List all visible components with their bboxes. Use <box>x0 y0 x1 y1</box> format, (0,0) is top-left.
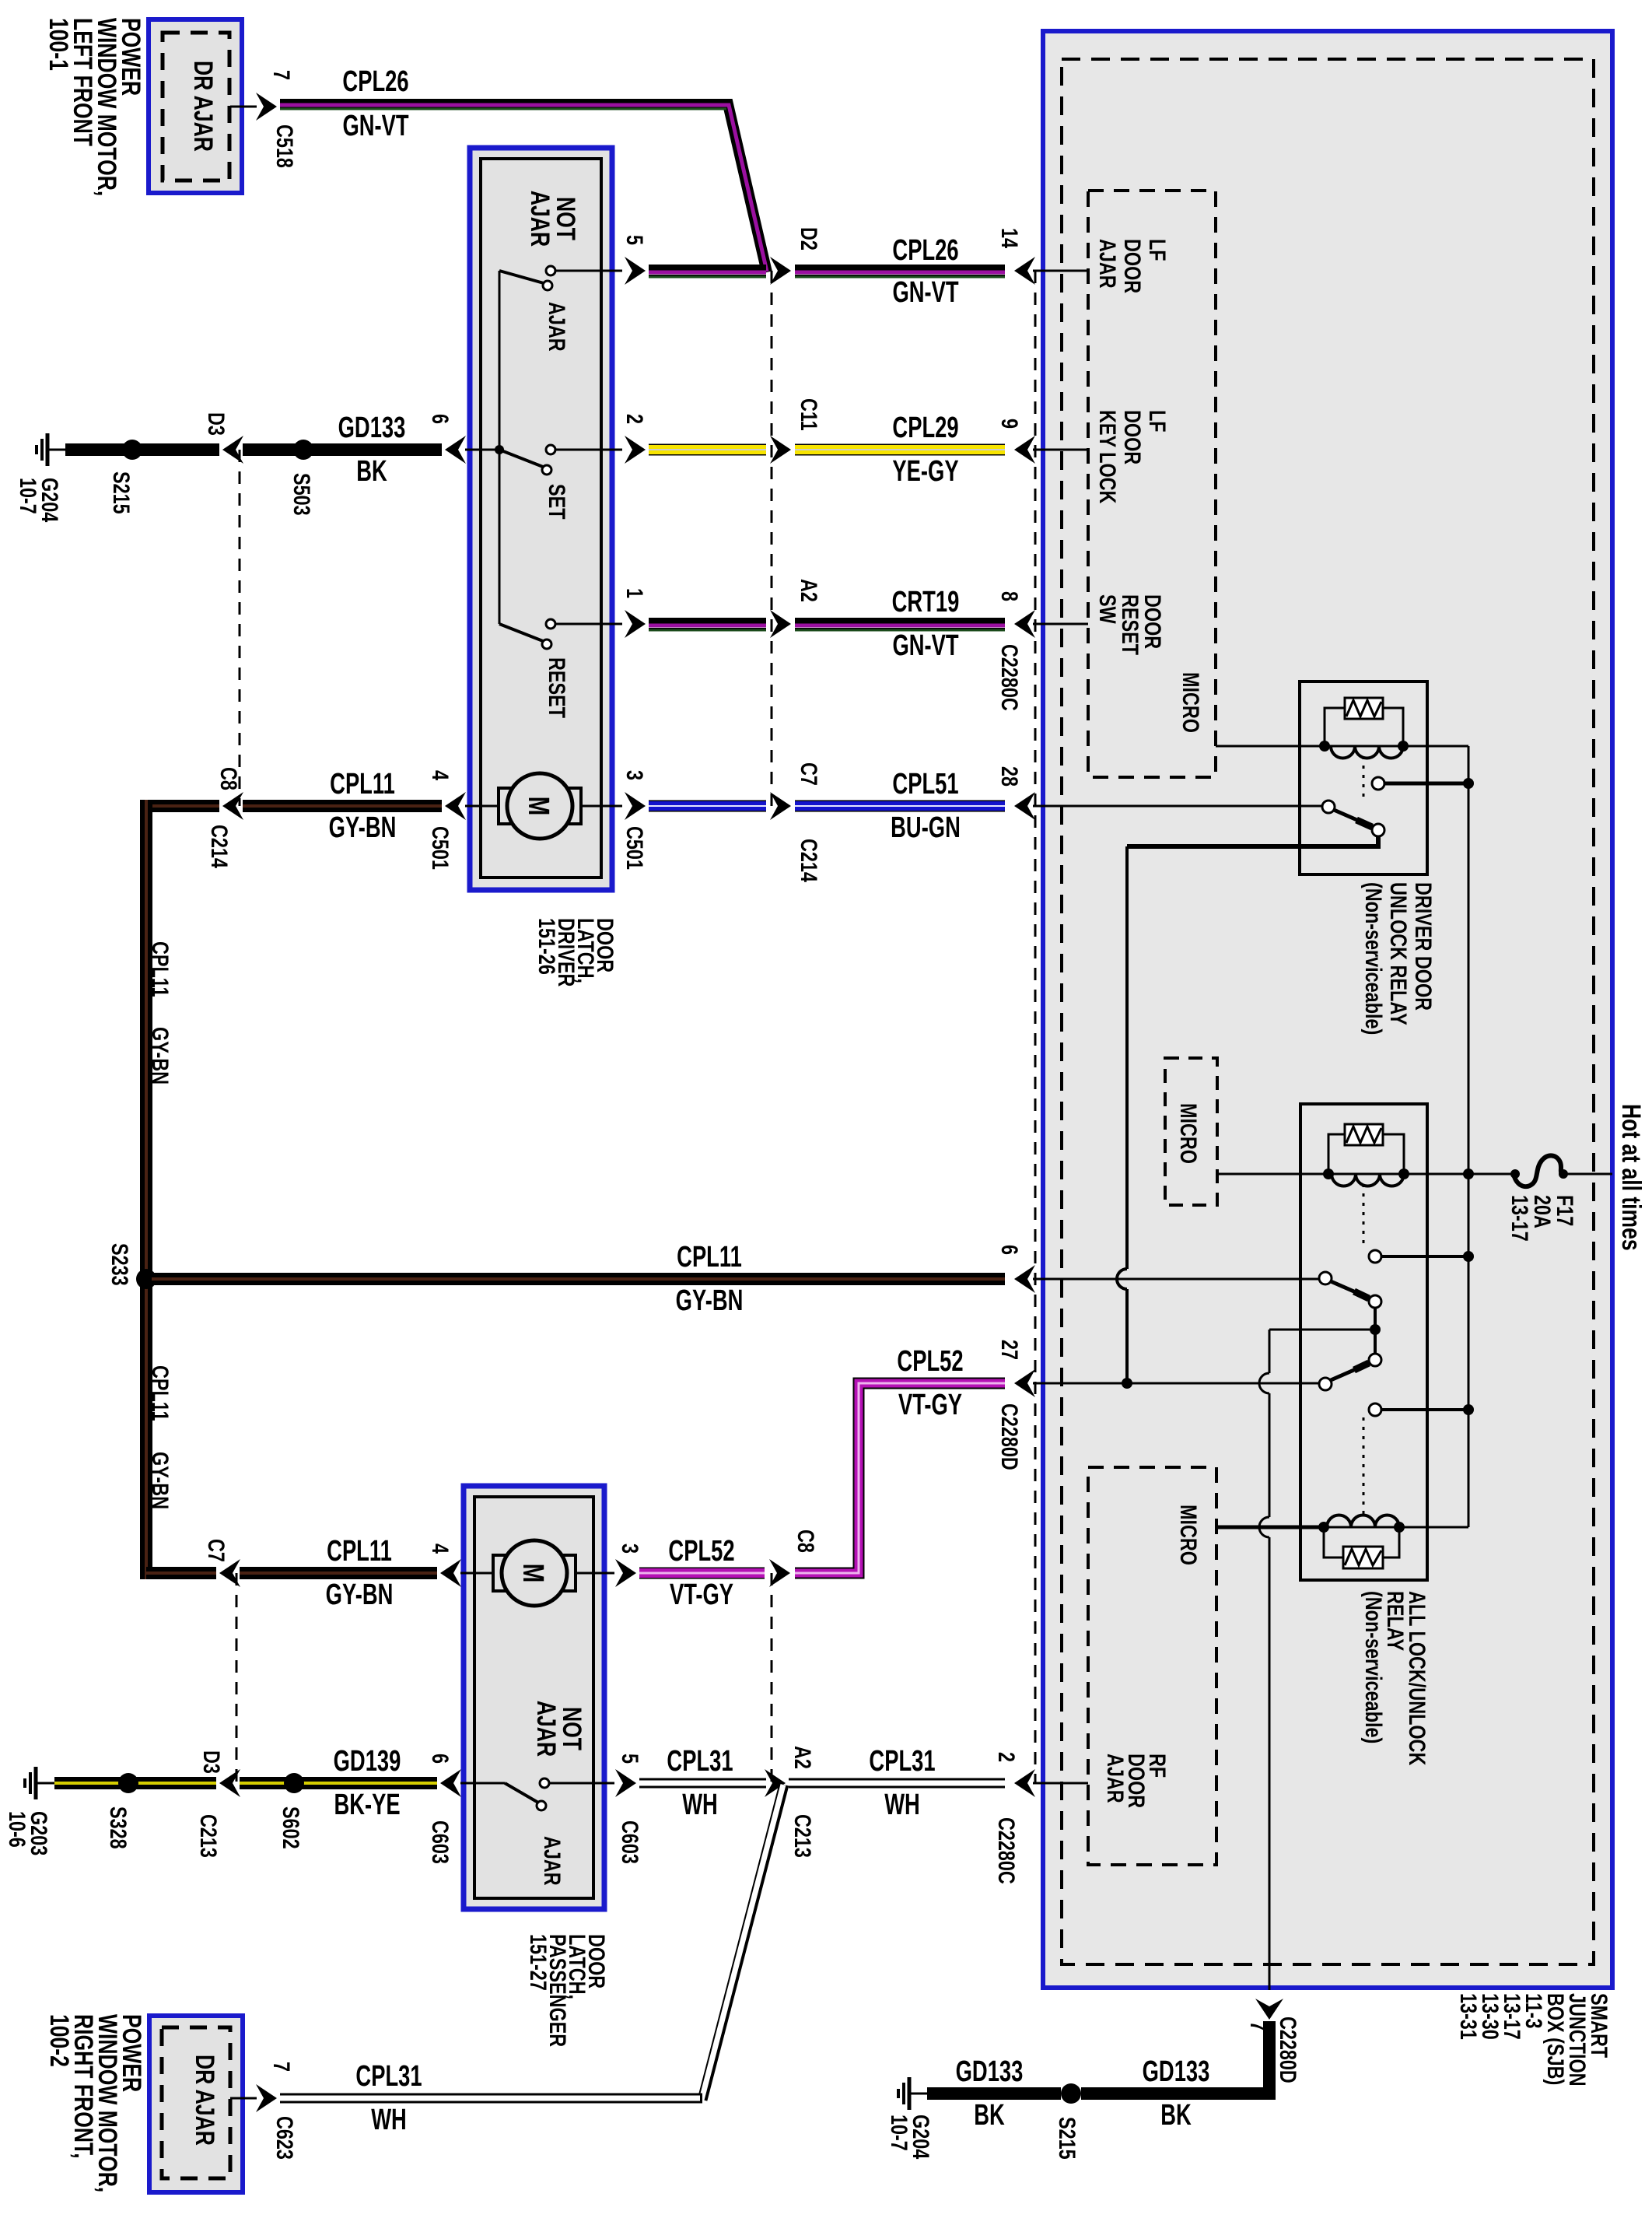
svg-text:BK-YE: BK-YE <box>334 1789 400 1821</box>
svg-text:M: M <box>522 797 555 816</box>
svg-text:7: 7 <box>268 2062 294 2072</box>
svg-text:NOTAJAR: NOTAJAR <box>525 191 580 247</box>
svg-text:M: M <box>516 1564 549 1583</box>
pin 6 arrow driver latch <box>445 436 466 464</box>
pin 5 arrow passenger <box>615 1769 636 1797</box>
switch AJAR (driver latch) <box>499 266 622 290</box>
relay2 top coil feed from MICRO <box>1217 1173 1328 1176</box>
svg-text:CRT19: CRT19 <box>892 586 960 618</box>
pin 7 C623 stub <box>230 2084 277 2112</box>
relay2 lower fixed contact <box>1369 1403 1468 1416</box>
svg-text:GY-BN: GY-BN <box>147 1027 173 1084</box>
pin 27 arrow SJB <box>1014 1369 1319 1397</box>
connector dashed line C2280 outside SJB <box>1034 271 1037 1783</box>
svg-text:3: 3 <box>617 1543 642 1554</box>
splice S503 <box>293 440 313 460</box>
wire CPL11 S233 to pin 6 <box>146 1273 1005 1285</box>
door latch passenger box <box>464 1486 604 1909</box>
micro box middle <box>1165 1058 1217 1205</box>
switch SET (driver latch) <box>465 445 622 475</box>
splice S233 <box>136 1269 156 1289</box>
svg-text:C213: C213 <box>789 1814 815 1858</box>
wire CRT19 A2 to pin 8 <box>795 621 1005 630</box>
relay2 armature bar <box>1374 1308 1377 1354</box>
svg-text:CPL11: CPL11 <box>330 768 395 801</box>
svg-text:CPL52: CPL52 <box>897 1345 963 1378</box>
wire CPL11 trunk vertical <box>140 800 152 1579</box>
svg-text:C7: C7 <box>203 1539 229 1562</box>
in-line connector A2 C213 <box>765 1769 786 1797</box>
relay1 actuation dotted <box>1363 756 1365 801</box>
svg-text:AJAR: AJAR <box>544 302 569 352</box>
wire CPL29 row latch to C11 <box>625 436 766 464</box>
wire CPL51 C7 to pin 28 <box>795 801 1005 812</box>
junction dot driver relay output to CPL52 <box>1122 1378 1132 1389</box>
svg-text:2: 2 <box>621 414 647 424</box>
wire CPL11 passenger corner <box>146 1567 216 1579</box>
relay2 upper blade <box>1331 1281 1369 1298</box>
relay2 top coil to bus <box>1404 1173 1468 1176</box>
relay1 armature blade <box>1334 810 1372 827</box>
pin 9 arrow SJB <box>1014 436 1088 464</box>
svg-text:5: 5 <box>621 235 647 245</box>
svg-text:YE-GY: YE-GY <box>892 455 958 488</box>
svg-text:C214: C214 <box>206 825 232 868</box>
wire CPL31 bottom horizontal <box>280 2094 702 2104</box>
svg-text:CPL31: CPL31 <box>869 1745 935 1778</box>
relay1 coil feed from MICRO <box>1216 745 1325 748</box>
wire CRT19 row latch to A2 <box>625 610 766 638</box>
svg-text:CPL11: CPL11 <box>147 1365 173 1421</box>
svg-text:S328: S328 <box>105 1806 131 1849</box>
relay1 lower contact <box>1372 824 1384 836</box>
svg-text:6: 6 <box>427 414 453 424</box>
svg-text:S233: S233 <box>107 1243 132 1286</box>
svg-text:GD133: GD133 <box>338 412 406 444</box>
relay1 common contact <box>1322 801 1335 813</box>
svg-text:6: 6 <box>427 1754 453 1764</box>
svg-text:9: 9 <box>996 419 1022 429</box>
relay2 resistor bottom <box>1343 1547 1383 1568</box>
svg-text:MICRO: MICRO <box>1175 1505 1201 1565</box>
svg-text:BK: BK <box>356 455 387 488</box>
svg-text:7: 7 <box>1245 2021 1271 2031</box>
svg-text:CPL31: CPL31 <box>667 1745 733 1778</box>
wire CPL11 trunk corner top <box>146 800 219 812</box>
wire CPL26 D2 to pin 14 <box>795 268 1005 277</box>
svg-text:C214: C214 <box>796 839 821 882</box>
pin 3 arrow passenger <box>615 1559 636 1587</box>
svg-text:GY-BN: GY-BN <box>329 811 397 844</box>
svg-text:4: 4 <box>427 770 453 780</box>
svg-text:C603: C603 <box>617 1820 642 1864</box>
svg-text:S602: S602 <box>278 1806 303 1849</box>
svg-text:C603: C603 <box>427 1820 453 1864</box>
relay1 upper fixed contact <box>1372 777 1468 790</box>
relay2 lower moving tip <box>1369 1354 1381 1366</box>
relay2 resistor top <box>1345 1124 1383 1145</box>
wire GD133 BK segment 2 <box>243 443 442 456</box>
wire CPL31 passenger to A2 <box>639 1778 766 1789</box>
svg-text:CPL52: CPL52 <box>668 1535 734 1568</box>
switch AJAR passenger <box>460 1778 614 1810</box>
wire CPL29 C11 to pin 9 <box>795 444 1005 456</box>
wire CPL26 from C518 <box>280 104 767 272</box>
pin 6 arrow SJB <box>1014 1265 1319 1293</box>
svg-text:GY-BN: GY-BN <box>147 1452 173 1509</box>
wire CPL31 diagonal <box>702 1785 784 2100</box>
svg-text:A2: A2 <box>789 1746 815 1769</box>
wire CPL26 row segment latch to D2 <box>555 257 766 285</box>
motor M passenger latch <box>460 1540 614 1606</box>
svg-text:RESET: RESET <box>544 657 569 718</box>
svg-text:C11: C11 <box>796 398 821 431</box>
arrow C7 mid <box>770 792 791 820</box>
svg-text:WH: WH <box>884 1789 920 1821</box>
in-line connector C7 left <box>219 1559 240 1783</box>
fuse end dots <box>1510 1169 1568 1179</box>
svg-text:4: 4 <box>427 1543 453 1554</box>
wire CPL11 passenger segment 2 <box>240 1559 461 1587</box>
pin 8 arrow SJB <box>1014 610 1088 638</box>
svg-text:C213: C213 <box>195 1814 221 1858</box>
wire CPL51 row latch to C7 <box>625 792 766 820</box>
splice S215 <box>122 440 142 460</box>
arrow C11 <box>770 436 791 464</box>
relay2 resistor top leads <box>1328 1134 1404 1174</box>
svg-text:D3: D3 <box>198 1750 224 1774</box>
wire GD133 bottom right segment <box>1081 2087 1276 2100</box>
svg-text:C2280C: C2280C <box>996 644 1022 711</box>
svg-text:3: 3 <box>621 770 647 780</box>
svg-text:C623: C623 <box>271 2116 297 2160</box>
splice S215 bottom <box>1061 2083 1081 2104</box>
relay2 upper fixed contact <box>1369 1250 1468 1263</box>
svg-text:C501: C501 <box>621 826 647 870</box>
relay1 resistor <box>1345 698 1383 719</box>
motor M driver latch <box>465 773 622 839</box>
in-line connector C8/C214 left <box>222 792 243 820</box>
svg-text:GD133: GD133 <box>956 2055 1024 2088</box>
SJB pin 7 exit line C2280D <box>1255 1999 1283 2100</box>
svg-text:WH: WH <box>371 2104 407 2136</box>
relay1 coil <box>1319 741 1409 758</box>
svg-text:BK: BK <box>1160 2099 1192 2132</box>
svg-text:8: 8 <box>996 591 1022 601</box>
power window motor left front box <box>149 19 242 193</box>
ground G204 bottom <box>898 2077 909 2110</box>
wire GD133 BK ground segment <box>47 449 219 451</box>
svg-text:1: 1 <box>621 588 647 598</box>
in-line connector C8 mid <box>769 1559 790 1783</box>
pin 7 C518 stub <box>230 93 277 121</box>
svg-text:VT-GY: VT-GY <box>898 1389 962 1421</box>
relay1 coil to power bus <box>1403 745 1468 748</box>
svg-text:MICRO: MICRO <box>1178 672 1203 733</box>
svg-text:GD139: GD139 <box>334 1745 401 1778</box>
wire relay1 output vertical with hop <box>1117 846 1127 1383</box>
pin 14 arrow SJB <box>1014 257 1088 285</box>
svg-text:CPL51: CPL51 <box>892 768 958 801</box>
wire CPL52 pin 27 run with corner <box>795 1383 1005 1573</box>
ground G203 <box>25 1767 36 1799</box>
pin 28 arrow SJB <box>1014 792 1322 820</box>
svg-text:A2: A2 <box>796 579 821 602</box>
relay2 lower common contact <box>1319 1378 1332 1390</box>
svg-text:28: 28 <box>996 766 1022 787</box>
svg-text:D2: D2 <box>796 227 821 251</box>
svg-text:C2280D: C2280D <box>996 1403 1022 1470</box>
svg-text:6: 6 <box>996 1245 1022 1255</box>
relay2 upper common contact <box>1319 1272 1332 1284</box>
relay2 lower blade <box>1331 1363 1369 1380</box>
micro box bottom (RF DOOR AJAR) <box>1088 1467 1216 1865</box>
relay2 resistor bottom leads <box>1324 1527 1399 1557</box>
svg-text:CPL11: CPL11 <box>327 1535 392 1568</box>
driver door unlock relay box <box>1300 682 1427 874</box>
in-line connector column C214 mid <box>771 271 773 806</box>
svg-text:MICRO: MICRO <box>1175 1103 1201 1164</box>
power window motor right front box <box>149 2016 243 2192</box>
all lock/unlock relay box <box>1300 1104 1427 1580</box>
switch RESET (driver latch) <box>499 619 622 649</box>
pin 2 arrow SJB RF door ajar <box>1014 1769 1088 1797</box>
splice S328 <box>118 1773 138 1793</box>
in-line connector D3 C213 <box>219 1769 240 1797</box>
svg-text:S503: S503 <box>289 473 314 516</box>
wire CPL52 passenger to C8 <box>639 1568 765 1579</box>
svg-text:VT-GY: VT-GY <box>670 1579 733 1611</box>
door latch driver box <box>470 148 612 890</box>
svg-text:C2280C: C2280C <box>993 1817 1019 1884</box>
svg-text:C7: C7 <box>796 762 821 786</box>
SJB micro box top (LF DOOR AJAR etc) <box>1088 191 1216 777</box>
svg-text:2: 2 <box>993 1752 1019 1762</box>
svg-text:5: 5 <box>617 1754 642 1764</box>
svg-text:27: 27 <box>996 1340 1022 1360</box>
svg-text:AJAR: AJAR <box>539 1836 565 1886</box>
svg-text:C518: C518 <box>271 124 297 168</box>
power bus vertical <box>1463 746 1474 1527</box>
relay2 bottom coil feed from MICRO <box>1216 1526 1324 1529</box>
svg-text:C2280D: C2280D <box>1275 2017 1300 2083</box>
svg-text:CPL11: CPL11 <box>147 941 173 997</box>
ground G204 <box>37 433 47 466</box>
svg-text:C8: C8 <box>793 1529 818 1553</box>
svg-text:CPL11: CPL11 <box>677 1241 742 1274</box>
svg-text:GY-BN: GY-BN <box>676 1284 744 1317</box>
svg-text:C501: C501 <box>427 826 453 870</box>
wire GD139 ground segment <box>36 1782 216 1785</box>
relay2 top coil <box>1323 1169 1409 1186</box>
relay2 bottom coil <box>1318 1515 1405 1533</box>
wire CPL31 A2 to pin 2 <box>789 1778 1005 1789</box>
relay1 output to CPL52 net <box>1127 836 1378 846</box>
svg-text:DR AJAR: DR AJAR <box>188 61 218 152</box>
relay2 bottom coil to bus <box>1399 1526 1468 1529</box>
svg-text:NOTAJAR: NOTAJAR <box>531 1701 586 1757</box>
svg-text:CPL31: CPL31 <box>355 2060 422 2093</box>
svg-text:S215: S215 <box>108 471 134 514</box>
fuse F17 symbol <box>1514 1155 1563 1186</box>
relay2 output line to C2280D with hops <box>1259 1330 1370 1990</box>
svg-text:D3: D3 <box>203 412 229 436</box>
latch driver common bus <box>499 271 501 624</box>
svg-text:BU-GN: BU-GN <box>891 811 961 844</box>
svg-text:GN-VT: GN-VT <box>342 110 408 142</box>
svg-text:14: 14 <box>996 228 1022 248</box>
wire GD139 segment 2 <box>240 1769 461 1797</box>
svg-text:CPL26: CPL26 <box>892 234 958 267</box>
relay2 dotted actuation top <box>1363 1184 1365 1245</box>
wire GD133 bottom left segment <box>909 2087 1061 2100</box>
svg-text:GN-VT: GN-VT <box>892 629 958 662</box>
relay2 dotted actuation bottom <box>1363 1417 1365 1517</box>
arrow A2 <box>770 610 791 638</box>
svg-text:SET: SET <box>544 484 569 520</box>
svg-text:GD133: GD133 <box>1143 2055 1210 2088</box>
svg-text:CPL26: CPL26 <box>342 65 408 98</box>
arrow D2 <box>770 257 791 285</box>
relay2 armature mid dot <box>1370 1324 1381 1335</box>
svg-text:Hot at all times: Hot at all times <box>1616 1104 1646 1251</box>
svg-text:WH: WH <box>682 1789 718 1821</box>
svg-text:S215: S215 <box>1054 2117 1080 2160</box>
relay2 upper moving tip <box>1369 1295 1381 1308</box>
smart junction box SJB <box>1043 31 1612 1988</box>
relay1 resistor leads <box>1325 708 1403 746</box>
svg-text:GY-BN: GY-BN <box>326 1579 394 1611</box>
fuse F17 line <box>1468 1173 1612 1176</box>
svg-text:7: 7 <box>268 70 294 80</box>
svg-text:C8: C8 <box>215 767 241 790</box>
svg-text:BK: BK <box>974 2099 1005 2132</box>
svg-text:CPL29: CPL29 <box>892 412 958 444</box>
wire CPL11 driver latch to C8 <box>243 792 466 820</box>
in-line connector D3 (C214) <box>222 436 243 806</box>
svg-text:GN-VT: GN-VT <box>892 276 958 309</box>
splice S602 <box>284 1773 304 1793</box>
svg-text:DR AJAR: DR AJAR <box>190 2055 219 2146</box>
